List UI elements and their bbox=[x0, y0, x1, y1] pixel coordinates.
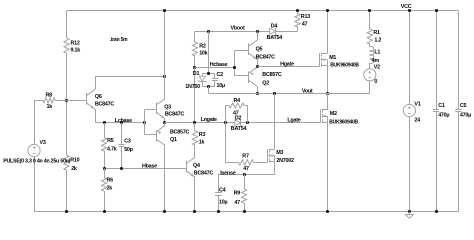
resistor R1 bbox=[367, 29, 372, 44]
junction Q2/Vout bbox=[256, 92, 259, 95]
svg-text:Hcbase: Hcbase bbox=[210, 62, 228, 68]
wire R4 left leg bbox=[225, 106, 227, 123]
wire M3 drain bbox=[274, 94, 276, 150]
svg-text:Isense: Isense bbox=[220, 170, 236, 176]
svg-text:BC857C: BC857C bbox=[170, 130, 190, 136]
wire R3 bottom bbox=[194, 145, 196, 157]
wire Hbase bbox=[104, 168, 186, 170]
junction Lcbase/bases bbox=[143, 121, 146, 124]
wire Q4 collector bbox=[194, 156, 196, 158]
svg-text:0: 0 bbox=[374, 79, 377, 85]
svg-text:R7: R7 bbox=[242, 153, 249, 159]
junction R10 ground bbox=[65, 210, 68, 213]
ground bbox=[409, 212, 411, 215]
svg-text:BC847C: BC847C bbox=[95, 102, 115, 108]
wire Q2 collector bbox=[257, 87, 259, 94]
svg-text:.tran 5m: .tran 5m bbox=[110, 37, 128, 43]
junction Lcbase/C3 bbox=[120, 121, 123, 124]
svg-text:R9: R9 bbox=[234, 190, 241, 196]
capacitor C2 bbox=[214, 74, 216, 79]
svg-text:BC857C: BC857C bbox=[262, 72, 282, 78]
svg-text:R12: R12 bbox=[71, 40, 80, 46]
resistor R6 bbox=[101, 178, 106, 192]
junction Lngate/R4L bbox=[224, 121, 227, 124]
capacitor C4 bbox=[215, 192, 222, 194]
capacitor C1 bbox=[433, 109, 439, 111]
wire R7 tap bbox=[225, 123, 227, 163]
wire M1 source bbox=[327, 66, 329, 94]
capacitor C3 bbox=[118, 144, 124, 146]
junction R2/Hcbase bbox=[193, 66, 196, 69]
wire V3 bottom bbox=[34, 156, 36, 211]
wire R5 top bbox=[104, 123, 106, 138]
wire R13 bottom bbox=[297, 27, 299, 31]
svg-text:Q5: Q5 bbox=[256, 47, 263, 53]
wire R12 top bbox=[66, 11, 68, 38]
transistor Q5 bbox=[248, 44, 250, 56]
wire R6 bottom bbox=[104, 191, 106, 212]
wire M3 source bbox=[274, 162, 276, 174]
wire Q5/Q2 bases bbox=[234, 51, 236, 76]
svg-text:R3: R3 bbox=[199, 132, 206, 138]
resistor R10 bbox=[64, 155, 69, 170]
svg-text:VCC: VCC bbox=[401, 4, 412, 10]
wire Lcbase bbox=[95, 122, 144, 124]
junction Hbase/R6 bbox=[103, 167, 106, 170]
wire Lngate bbox=[165, 122, 235, 124]
wire Q3 collector bbox=[164, 11, 166, 99]
svg-text:BC847C: BC847C bbox=[165, 112, 185, 118]
svg-text:Hgate: Hgate bbox=[280, 61, 294, 67]
wire R2 bottom bbox=[194, 56, 196, 68]
svg-text:1k: 1k bbox=[199, 140, 205, 146]
junction bases/Hcbase bbox=[233, 66, 236, 69]
svg-text:BC847C: BC847C bbox=[194, 170, 214, 176]
svg-text:V3: V3 bbox=[40, 140, 46, 146]
svg-text:C3: C3 bbox=[124, 139, 131, 145]
wire C3 top bbox=[121, 123, 123, 145]
svg-text:D1: D1 bbox=[193, 71, 200, 77]
wire C1 top bbox=[436, 11, 438, 110]
wire Q2 emitter bbox=[257, 65, 259, 67]
svg-text:C2: C2 bbox=[217, 72, 224, 78]
svg-text:R10: R10 bbox=[70, 158, 79, 164]
junction Q3-line VCC bbox=[163, 9, 166, 12]
svg-text:Lcbase: Lcbase bbox=[115, 118, 132, 124]
junction M3drain/Vout bbox=[273, 92, 276, 95]
mosfet M2 bbox=[320, 109, 322, 122]
wire Q3 emitter bbox=[164, 119, 166, 123]
svg-text:2k: 2k bbox=[107, 185, 113, 191]
resistor R8 bbox=[43, 98, 55, 103]
source V3 bbox=[28, 144, 40, 156]
svg-text:Vboot: Vboot bbox=[231, 25, 245, 31]
wire clamp top bar bbox=[202, 73, 215, 75]
junction Isense/R9 bbox=[243, 173, 246, 176]
svg-text:4m: 4m bbox=[372, 58, 380, 64]
transistor Q4 bbox=[186, 161, 188, 173]
wire Lgate bbox=[241, 122, 321, 124]
junction C1 VCC bbox=[435, 9, 438, 12]
svg-text:47: 47 bbox=[243, 166, 249, 172]
wire V1 top bbox=[409, 11, 411, 105]
svg-text:PULSE(0 3.3 0 4n 4n 25u 50u): PULSE(0 3.3 0 4n 4n 25u 50u) bbox=[3, 159, 70, 165]
svg-text:47: 47 bbox=[233, 111, 239, 117]
svg-text:BAT54: BAT54 bbox=[231, 126, 247, 132]
svg-text:1.2: 1.2 bbox=[374, 38, 381, 44]
svg-text:C5: C5 bbox=[460, 103, 467, 109]
mosfet M1 bbox=[319, 53, 321, 66]
junction V1 ground bbox=[408, 210, 411, 213]
junction R9 ground bbox=[243, 210, 246, 213]
wire clamp to Vout bbox=[208, 86, 210, 93]
wire Vboot to clamp bbox=[208, 31, 210, 73]
svg-text:R1: R1 bbox=[373, 30, 380, 36]
resistor R9 bbox=[241, 189, 246, 203]
resistor R3 bbox=[192, 131, 197, 146]
junction R12/R8 bbox=[65, 99, 68, 102]
svg-text:M2: M2 bbox=[330, 111, 337, 117]
junction M1/Vout bbox=[326, 92, 329, 95]
svg-text:4.7k: 4.7k bbox=[107, 146, 117, 152]
svg-text:10k: 10k bbox=[199, 50, 207, 56]
svg-text:Vout: Vout bbox=[302, 89, 313, 95]
capacitor C5 bbox=[455, 109, 461, 111]
wire C4 top bbox=[218, 174, 220, 193]
svg-text:50p: 50p bbox=[124, 147, 133, 153]
wire clamp bottom bar bbox=[202, 86, 215, 88]
wire C4 bottom bbox=[218, 195, 220, 211]
wire Vout bbox=[209, 93, 370, 95]
wire R9 top bbox=[244, 174, 246, 189]
svg-text:1N750: 1N750 bbox=[185, 84, 200, 90]
wire V1 bottom bbox=[409, 116, 411, 211]
svg-text:47: 47 bbox=[302, 21, 308, 27]
diode D2 bbox=[235, 120, 241, 126]
junction Vboot/D1 bbox=[207, 30, 210, 33]
svg-text:9.1k: 9.1k bbox=[71, 48, 81, 54]
wire R10 bottom bbox=[66, 170, 68, 212]
svg-text:47: 47 bbox=[234, 200, 240, 206]
resistor R12 bbox=[64, 38, 69, 53]
svg-text:L1: L1 bbox=[374, 50, 380, 56]
svg-text:2k: 2k bbox=[71, 166, 77, 172]
transistor Q2 bbox=[248, 71, 250, 83]
resistor R5 bbox=[101, 138, 106, 152]
wire R7 right bbox=[254, 162, 268, 164]
wire R8 left bbox=[34, 100, 43, 102]
svg-text:R8: R8 bbox=[46, 92, 53, 98]
junction Hbase/C3 bbox=[120, 167, 123, 170]
wire R1-L1 bbox=[369, 44, 371, 47]
junction R1 VCC bbox=[368, 9, 371, 12]
svg-text:Q3: Q3 bbox=[164, 104, 171, 110]
wire R9 bottom bbox=[244, 203, 246, 212]
junction Q4 ground bbox=[193, 210, 196, 213]
svg-text:1k: 1k bbox=[47, 104, 53, 110]
svg-text:Q4: Q4 bbox=[193, 163, 200, 169]
junction Q3/Q1 emitters bbox=[163, 121, 166, 124]
wire Hcbase bbox=[195, 67, 234, 69]
wire R5 bottom bbox=[104, 151, 106, 168]
svg-text:R5: R5 bbox=[107, 138, 114, 144]
svg-text:Lgate: Lgate bbox=[287, 117, 300, 123]
junction Lgate/R4R bbox=[246, 121, 249, 124]
svg-text:D4: D4 bbox=[271, 23, 278, 29]
junction V1 VCC bbox=[408, 9, 411, 12]
svg-text:R2: R2 bbox=[199, 43, 206, 49]
source V2 bbox=[364, 69, 376, 81]
wire Q5 collector bbox=[257, 31, 259, 40]
wire R3 top bbox=[194, 123, 196, 131]
junction Lngate/R3 bbox=[193, 121, 196, 124]
inductor L1 bbox=[370, 47, 374, 64]
svg-text:10µ: 10µ bbox=[217, 83, 225, 89]
junction clamp bottom bbox=[207, 85, 210, 88]
junction Hgate bbox=[256, 65, 259, 68]
transistor Q3 bbox=[156, 102, 158, 114]
wire M1 drain bbox=[327, 11, 329, 54]
svg-text:M1: M1 bbox=[329, 55, 336, 61]
svg-text:Q6: Q6 bbox=[95, 94, 102, 100]
wire Q6 emitter bbox=[95, 109, 97, 122]
svg-text:M3: M3 bbox=[276, 150, 283, 156]
junction Lcbase/R5 bbox=[103, 121, 106, 124]
wire L1-V2 bbox=[369, 63, 371, 69]
resistor R4 bbox=[229, 103, 244, 108]
resistor R7 bbox=[239, 160, 254, 165]
wire R6 top bbox=[104, 168, 106, 177]
svg-text:470µ: 470µ bbox=[438, 113, 449, 119]
svg-text:Lngate: Lngate bbox=[201, 117, 217, 123]
junction M1 VCC bbox=[326, 9, 329, 12]
svg-text:470µ: 470µ bbox=[460, 113, 471, 119]
svg-text:V1: V1 bbox=[414, 102, 420, 108]
junction R13 VCC bbox=[296, 9, 299, 12]
wire Hgate bbox=[258, 66, 320, 68]
svg-text:10µ: 10µ bbox=[219, 199, 227, 205]
diode D4 bbox=[270, 28, 276, 34]
svg-text:Q1: Q1 bbox=[170, 137, 177, 143]
junction R6 ground bbox=[103, 210, 106, 213]
wire top VCC rail bbox=[67, 10, 459, 12]
wire C1 bottom bbox=[436, 112, 438, 212]
svg-text:24: 24 bbox=[414, 117, 420, 123]
resistor R2 bbox=[192, 42, 197, 56]
junction C1 ground bbox=[435, 210, 438, 213]
source V1 bbox=[403, 104, 415, 116]
mosfet M3 bbox=[267, 149, 269, 162]
junction Q6-collector/Q3-line bbox=[163, 75, 166, 78]
svg-text:BAT54: BAT54 bbox=[267, 35, 283, 41]
junction M2 ground bbox=[326, 210, 329, 213]
svg-text:2N7002: 2N7002 bbox=[276, 158, 294, 164]
wire Q5 emitter bbox=[257, 60, 259, 67]
wire Q1 emitter bbox=[164, 123, 166, 126]
wire R12 bottom to R10 bbox=[66, 53, 68, 155]
svg-text:R4: R4 bbox=[234, 98, 241, 104]
svg-text:C4: C4 bbox=[219, 188, 226, 194]
wire R1 top bbox=[369, 11, 371, 29]
wire R4 right leg bbox=[244, 105, 248, 107]
wire V3 top bbox=[34, 100, 36, 145]
transistor Q6 bbox=[86, 93, 88, 105]
wire R2 top bbox=[194, 31, 196, 42]
wire Q1 collector bbox=[164, 145, 166, 211]
wire V2 bottom bbox=[369, 81, 371, 94]
transistor Q1 bbox=[156, 130, 158, 142]
svg-text:R13: R13 bbox=[301, 14, 310, 20]
junction C4 ground bbox=[217, 210, 220, 213]
wire Hcbase-to-Lngate bbox=[194, 68, 196, 123]
svg-text:Hbase: Hbase bbox=[142, 164, 157, 170]
junction clamp top bbox=[207, 72, 210, 75]
wire Q4 emitter bbox=[194, 177, 196, 211]
svg-text:Q2: Q2 bbox=[262, 81, 269, 87]
wire Q6 collector bbox=[95, 76, 97, 89]
wire R8 right bbox=[55, 100, 86, 102]
svg-text:V2: V2 bbox=[374, 64, 380, 70]
svg-text:BC847C: BC847C bbox=[256, 55, 276, 61]
junction Vboot/Q5 bbox=[256, 30, 259, 33]
wire R13 top bbox=[297, 11, 299, 14]
junction Q1 ground bbox=[163, 210, 166, 213]
wire bottom ground rail bbox=[34, 211, 458, 213]
svg-text:C1: C1 bbox=[438, 103, 445, 109]
wire Vboot bbox=[195, 31, 270, 33]
wire Q3/Q1 bases bbox=[144, 110, 146, 135]
wire M2 source bbox=[327, 122, 329, 211]
svg-text:R6: R6 bbox=[107, 177, 114, 183]
wire M2 drain bbox=[327, 94, 329, 110]
svg-text:BUK960940B: BUK960940B bbox=[329, 119, 358, 125]
wire right side (C5 branch) bbox=[458, 11, 460, 110]
svg-text:BUK960940B: BUK960940B bbox=[330, 62, 359, 68]
resistor R13 bbox=[295, 14, 300, 28]
zener D1 bbox=[202, 74, 204, 77]
wire C3 bottom bbox=[121, 147, 123, 168]
